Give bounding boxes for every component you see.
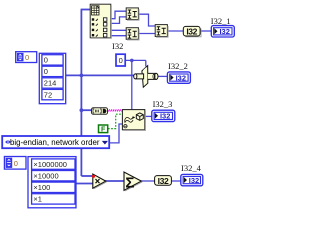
wire: 0 constant down to Unflatten type input: [131, 60, 133, 110]
svg-text:I32: I32: [160, 112, 170, 121]
svg-text:×1000000: ×1000000: [33, 160, 67, 169]
coercion dot: [92, 175, 95, 178]
wire: array constant to Type Cast x input: [66, 74, 136, 76]
byte array to string node: [92, 108, 108, 115]
svg-text:I32: I32: [186, 27, 197, 37]
svg-text:I32: I32: [219, 27, 229, 36]
conversion node I32 (top): [183, 26, 201, 36]
wire: Index Array row1 to Join1 upper: [111, 11, 127, 19]
wire: Type Cast output to I32_2 terminal: [158, 75, 168, 77]
junction dot at trunk/typecast tee: [80, 74, 84, 78]
wire: enum to Unflatten byte-order input: [109, 124, 122, 143]
wire: conversion to I32_4 terminal: [172, 180, 181, 182]
wire: Index Array row3 to Join2 upper: [111, 29, 127, 31]
svg-text:0: 0: [119, 56, 123, 65]
wire: Join2 output to Join3 lower: [138, 33, 155, 35]
svg-text:214: 214: [44, 79, 57, 88]
ribbon glyph: [125, 117, 133, 123]
type cast node: [134, 66, 158, 88]
array constant [0,0,214,72] frame: [39, 53, 65, 103]
wire: Join3 output to I32 conversion: [167, 30, 183, 32]
wire: sigma output to I32 conversion: [141, 180, 155, 182]
svg-text:0: 0: [44, 56, 48, 65]
bottom array frame [x1000000 ...]: [28, 157, 76, 208]
boolean constant F: [99, 125, 108, 134]
wire: Index Array row4 to Join2 lower: [111, 35, 127, 37]
unflatten from string node: [122, 110, 145, 131]
svg-text:F: F: [101, 127, 106, 134]
indicator terminal I32_1: [211, 26, 234, 37]
multiply node: [92, 174, 107, 189]
join numbers J1: [126, 8, 139, 20]
svg-text:×100: ×100: [33, 183, 50, 192]
enum constant big-endian: [2, 136, 109, 148]
svg-text:I32: I32: [112, 41, 123, 51]
svg-text:×10000: ×10000: [33, 171, 58, 180]
svg-text:I32_4: I32_4: [181, 163, 202, 173]
wire: trunk to Byte Array To String: [81, 109, 92, 111]
array constant [0,0,214,72] index box: [16, 52, 37, 63]
svg-text:I32: I32: [176, 73, 186, 82]
cube glyph: [136, 113, 143, 121]
indicator terminal I32_4: [181, 174, 203, 185]
svg-text:I32_2: I32_2: [168, 61, 188, 71]
indicator terminal I32_3: [152, 110, 175, 121]
svg-text:0: 0: [14, 159, 18, 168]
svg-text:0: 0: [44, 67, 48, 76]
svg-text:×1: ×1: [33, 195, 42, 204]
join numbers J2: [126, 28, 139, 40]
indicator terminal I32_2: [167, 72, 190, 83]
bottom array index box: [4, 157, 26, 170]
conversion node I32 (bottom): [155, 176, 172, 186]
wire: 0 constant to Type Cast type input: [125, 60, 146, 66]
wire: array input to Index Array: [81, 9, 91, 11]
error ring: [124, 125, 127, 128]
wire: Index Array row2 to Join1 lower: [111, 17, 127, 24]
wire: trunk to multiply upper input: [81, 175, 93, 177]
junction dot at trunk/BATS tee: [80, 108, 84, 112]
wire: Unflatten output to I32_3 terminal: [145, 115, 153, 117]
sigma (add array elements) node: [124, 172, 142, 192]
wire: Join1 output to Join3 upper: [138, 14, 155, 26]
svg-text:72: 72: [44, 90, 52, 99]
svg-text:big-endian, network order: big-endian, network order: [10, 138, 100, 147]
wire: string from BATS to Unflatten (magenta hatched): [108, 109, 123, 111]
svg-text:I32: I32: [189, 176, 199, 185]
svg-text:I32_3: I32_3: [153, 99, 173, 109]
join numbers J3: [155, 25, 168, 37]
left tube: [135, 74, 143, 79]
funnel fin: [142, 66, 148, 88]
wire: conversion to I32_1 terminal: [200, 30, 212, 32]
index array node: [90, 4, 111, 38]
svg-text:0: 0: [25, 53, 29, 62]
index array row glyphs: [92, 18, 98, 36]
wire: boolean F to Unflatten (green dashed): [108, 114, 123, 128]
svg-text:I32: I32: [158, 176, 169, 186]
wire: multiply output to sigma: [105, 180, 125, 182]
wire: bottom array to multiply lower input: [76, 183, 93, 185]
wire: byte-array trunk vertical: [80, 10, 82, 177]
junction dot on 0-constant wire: [130, 59, 134, 63]
svg-text:I32_1: I32_1: [211, 16, 231, 26]
right tube: [148, 73, 156, 79]
svg-text:Σ: Σ: [125, 175, 134, 192]
